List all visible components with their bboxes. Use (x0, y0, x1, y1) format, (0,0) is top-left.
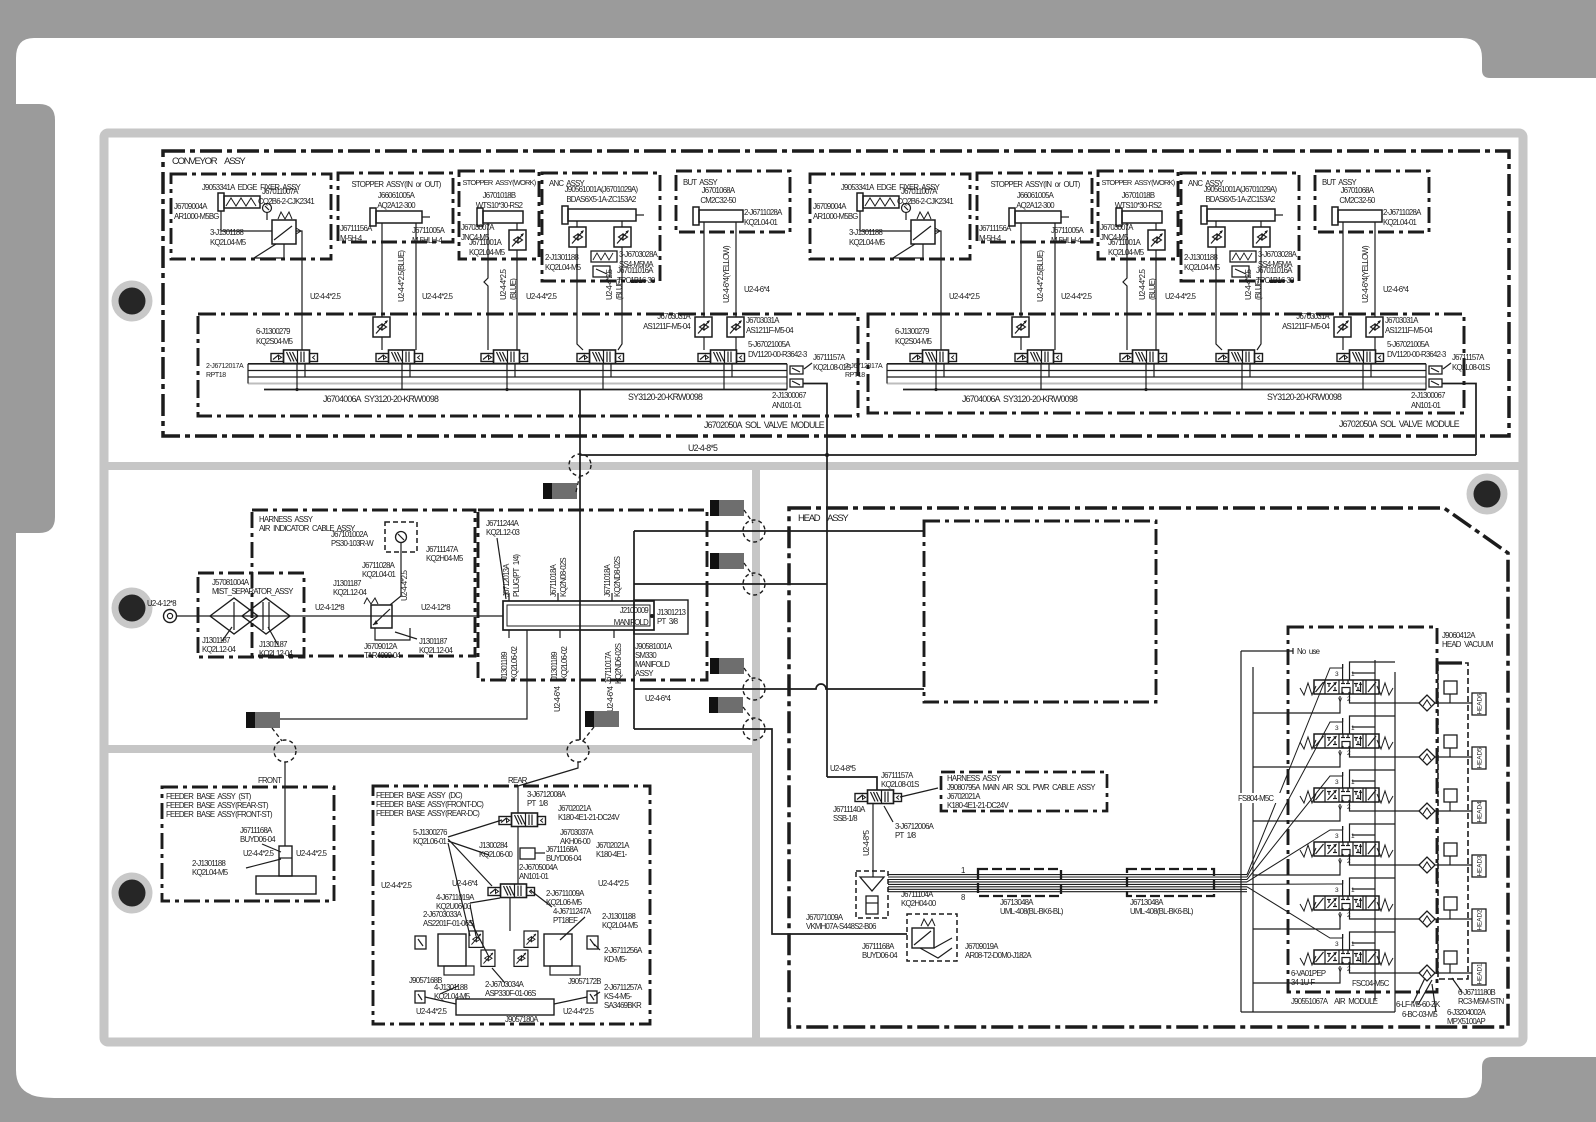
leader (497, 538, 506, 599)
flow control (524, 931, 538, 947)
node circle E (743, 718, 765, 740)
node circle B (743, 520, 765, 542)
connector E (709, 697, 743, 713)
sol valve module box left (198, 314, 858, 416)
svg-text:U2-4-8*5: U2-4-8*5 (862, 829, 871, 856)
gauge box (385, 522, 417, 552)
divider horizontal left (104, 745, 756, 753)
harness assy box (252, 510, 475, 656)
main air valve SSB (855, 790, 902, 804)
leader (222, 627, 232, 641)
node circle A (569, 454, 591, 476)
svg-text:KQ2L12-03: KQ2L12-03 (486, 528, 520, 537)
svg-text:BUYD06-04: BUYD06-04 (240, 835, 276, 844)
svg-text:J1301213: J1301213 (657, 608, 686, 617)
svg-text:AN101-01: AN101-01 (519, 872, 549, 881)
connector B (710, 500, 744, 516)
leaders from 5-J1300276 (448, 820, 502, 837)
svg-text:SM330: SM330 (635, 651, 657, 660)
flow control (469, 931, 483, 947)
node circle C (743, 573, 765, 595)
head valve HEAD1 (1300, 932, 1486, 985)
svg-text:HARNESS ASSY: HARNESS ASSY (259, 515, 314, 524)
svg-text:KQ2N08-02S: KQ2N08-02S (559, 558, 568, 597)
svg-text:PT 1/8: PT 1/8 (895, 831, 916, 840)
connector G (246, 712, 280, 728)
svg-text:J6711017A: J6711017A (604, 650, 613, 684)
trunk wire to head top (634, 530, 924, 532)
svg-text:KQ2ND6-02S: KQ2ND6-02S (614, 643, 623, 684)
no use wire (1241, 650, 1293, 652)
port stubs (508, 593, 510, 601)
conveyor left half (171, 171, 851, 410)
svg-text:U2-4-6*4: U2-4-6*4 (645, 694, 672, 703)
filter unit box (856, 871, 888, 918)
wire valve2 down (509, 898, 511, 931)
trunk wire vertical (633, 531, 635, 729)
svg-text:FEEDER BASE ASSY(REAR-DC): FEEDER BASE ASSY(REAR-DC) (376, 809, 480, 818)
svg-text:3-J6712006A: 3-J6712006A (895, 822, 935, 831)
svg-text:J90581001A: J90581001A (635, 642, 673, 651)
svg-text:UML-408(BL-BK6-BL): UML-408(BL-BK6-BL) (1000, 907, 1064, 916)
conveyor right half (810, 171, 1490, 410)
svg-text:FEEDER BASE ASSY (ST): FEEDER BASE ASSY (ST) (166, 792, 252, 801)
rear valve 1 (499, 813, 546, 827)
head valve HEAD3 (1300, 824, 1486, 877)
svg-text:PS30-103R-W: PS30-103R-W (331, 539, 374, 548)
svg-text:J1301189: J1301189 (550, 652, 559, 680)
svg-text:BUYD06-04: BUYD06-04 (546, 854, 582, 863)
svg-text:J6702050A SOL VALVE MODULE: J6702050A SOL VALVE MODULE (704, 420, 825, 430)
svg-text:BUYD06-04: BUYD06-04 (862, 951, 898, 960)
svg-text:HEAD4: HEAD4 (1477, 801, 1484, 822)
bottom fitting right (587, 991, 597, 1003)
svg-text:PT 1/8: PT 1/8 (527, 799, 548, 808)
feeder base assy (dc) box (373, 786, 650, 1024)
conveyor assy outer box (163, 151, 1509, 436)
svg-text:VKMH07A-S448S2-B06: VKMH07A-S448S2-B06 (806, 922, 876, 931)
wire from riser to main valve (827, 777, 877, 790)
svg-text:2-J6705004A: 2-J6705004A (519, 863, 559, 872)
svg-text:ASP330F-01-06S: ASP330F-01-06S (485, 989, 536, 998)
svg-text:HEAD VACUUM: HEAD VACUUM (1442, 640, 1493, 649)
svg-text:U2-4-12*8: U2-4-12*8 (147, 599, 176, 608)
wires to bottom bar (425, 997, 456, 1004)
svg-text:J9060412A: J9060412A (1442, 631, 1476, 640)
svg-text:J6703037A: J6703037A (560, 828, 594, 837)
svg-text:SSB-1/8: SSB-1/8 (833, 814, 857, 823)
head valve HEAD5 (1300, 716, 1486, 769)
feeder st valve (279, 846, 292, 876)
svg-text:J1301187: J1301187 (333, 579, 361, 588)
feeder st base (256, 876, 316, 894)
trunk wire to filter (634, 729, 907, 934)
leaders (594, 944, 600, 950)
svg-text:J6711168A: J6711168A (546, 845, 579, 854)
head valve HEAD2 (1300, 878, 1486, 931)
valve return wraps (1253, 673, 1375, 983)
svg-text:U2-4-4*2.5: U2-4-4*2.5 (416, 1007, 448, 1016)
svg-text:J6702050A SOL VALVE MODULE: J6702050A SOL VALVE MODULE (1339, 419, 1460, 429)
svg-text:KQ2L04-M5: KQ2L04-M5 (602, 921, 639, 930)
svg-text:FRONT: FRONT (258, 776, 282, 785)
fitting AKH06 (520, 848, 535, 859)
svg-text:4-J6711247A: 4-J6711247A (553, 907, 592, 916)
mist separator assy box (198, 573, 304, 657)
svg-text:34-1U-F: 34-1U-F (1291, 978, 1315, 987)
svg-text:J6711018A: J6711018A (549, 563, 558, 597)
svg-text:J6702021A: J6702021A (947, 792, 981, 801)
svg-text:KQ2L12-04: KQ2L12-04 (333, 588, 368, 597)
svg-text:MPX5100AP: MPX5100AP (1447, 1017, 1485, 1026)
wire riser right module (1442, 384, 1476, 456)
regulator box (907, 914, 957, 961)
leader lines (1413, 978, 1425, 1003)
svg-text:J6713048A: J6713048A (1130, 898, 1164, 907)
svg-text:U2-4-8*5: U2-4-8*5 (830, 764, 857, 773)
svg-text:KQ2L12-04: KQ2L12-04 (419, 646, 454, 655)
connector A (543, 483, 577, 499)
trunk wire to head low with hop (634, 684, 924, 689)
head valve HEAD4 (1300, 770, 1486, 823)
svg-text:5-J1300276: 5-J1300276 (413, 828, 447, 837)
svg-text:HEAD1: HEAD1 (1477, 963, 1484, 984)
svg-text:KQ2L06-00: KQ2L06-00 (479, 850, 514, 859)
head inner box (924, 521, 1156, 702)
svg-text:U2-4-8*5: U2-4-8*5 (688, 443, 718, 453)
leader (246, 859, 281, 868)
svg-text:PT18EF: PT18EF (553, 916, 578, 925)
valve bank frame (1240, 651, 1242, 1012)
svg-text:J6711157A: J6711157A (881, 771, 914, 780)
svg-text:J57081004A: J57081004A (212, 578, 250, 587)
svg-text:KQ2L04-01: KQ2L04-01 (362, 570, 396, 579)
svg-text:2-J6703034A: 2-J6703034A (485, 980, 525, 989)
connector D (710, 658, 744, 674)
svg-text:J1301187: J1301187 (202, 636, 230, 645)
svg-text:U2-4-4*2.5: U2-4-4*2.5 (243, 849, 275, 858)
svg-text:2-J6711256A: 2-J6711256A (604, 946, 643, 955)
svg-text:KD-M5-: KD-M5- (604, 955, 628, 964)
gauge stem wire (390, 542, 401, 605)
svg-text:6-J3204002A: 6-J3204002A (1447, 1008, 1487, 1017)
svg-text:KQ2L06-02: KQ2L06-02 (510, 646, 519, 680)
regulator TAR4000 (371, 605, 392, 628)
svg-text:ASSY: ASSY (635, 669, 654, 678)
connector C (710, 553, 744, 569)
side fitting left (415, 936, 426, 949)
svg-text:HEAD5: HEAD5 (1477, 747, 1484, 768)
wire to rear feeder (518, 762, 578, 813)
wire riser left module (803, 384, 827, 778)
svg-text:U2-4-4*2.5: U2-4-4*2.5 (296, 849, 328, 858)
svg-text:J1301187: J1301187 (259, 640, 287, 649)
svg-text:2-J1301188: 2-J1301188 (192, 859, 226, 868)
svg-text:J6713048A: J6713048A (1000, 898, 1034, 907)
node circle G (274, 740, 296, 762)
sol valve module box right (868, 314, 1464, 413)
svg-text:FEEDER BASE ASSY(FRONT-ST): FEEDER BASE ASSY(FRONT-ST) (166, 810, 273, 819)
svg-text:KQ2L06-01: KQ2L06-01 (413, 837, 447, 846)
svg-text:K180-4E1-21-DC24V: K180-4E1-21-DC24V (947, 801, 1009, 810)
svg-text:J6711168A: J6711168A (862, 942, 895, 951)
svg-text:U2-4-6*4: U2-4-6*4 (452, 879, 479, 888)
svg-text:J9057180A: J9057180A (505, 1015, 539, 1024)
svg-text:3-J6712008A: 3-J6712008A (527, 790, 567, 799)
svg-text:KQ2L12-04: KQ2L12-04 (202, 645, 237, 654)
svg-text:KQ2L04-M5: KQ2L04-M5 (192, 868, 229, 877)
wire to front feeder (284, 762, 286, 846)
right motor block (544, 934, 572, 966)
svg-text:UML-408(BL-BK6-BL): UML-408(BL-BK6-BL) (1130, 907, 1194, 916)
svg-text:2-J6703033A: 2-J6703033A (423, 910, 463, 919)
svg-text:MANIFOLD: MANIFOLD (614, 618, 649, 627)
svg-text:CONVEYOR ASSY: CONVEYOR ASSY (172, 156, 246, 167)
air inlet port (164, 610, 177, 623)
head valve HEAD6 (1300, 662, 1486, 715)
svg-text:J9057172B: J9057172B (568, 977, 601, 986)
tube sheath box 2 (1127, 869, 1214, 896)
svg-text:HEAD2: HEAD2 (1477, 909, 1484, 930)
filter 1 (210, 598, 258, 634)
svg-text:J9080795A MAIN AIR SOL PWR CAB: J9080795A MAIN AIR SOL PWR CABLE ASSY (947, 783, 1096, 792)
svg-text:MANIFOLD: MANIFOLD (635, 660, 670, 669)
bullet 3 (112, 873, 153, 914)
manifold block J2100009 (503, 601, 654, 630)
svg-text:KS-4-M5-: KS-4-M5- (604, 992, 633, 1001)
tube bundle 8 lines (888, 875, 1247, 892)
head valves (1300, 662, 1486, 985)
svg-text:J6711168A: J6711168A (240, 826, 273, 835)
svg-text:U2-4-12*8: U2-4-12*8 (315, 603, 344, 612)
svg-text:KQ2H04-00: KQ2H04-00 (901, 899, 937, 908)
filter 2 (242, 598, 290, 634)
port box PT 3/8 (634, 600, 688, 634)
svg-text:FS804-M5C: FS804-M5C (1238, 794, 1274, 803)
svg-text:J6702021A: J6702021A (558, 804, 592, 813)
svg-text:6-VA01PEP: 6-VA01PEP (1291, 969, 1326, 978)
svg-text:U2-4-6*4: U2-4-6*4 (606, 685, 615, 712)
svg-text:TAR4000-04: TAR4000-04 (364, 651, 402, 660)
svg-text:FSC04-M5C: FSC04-M5C (1352, 979, 1390, 988)
drain (375, 628, 410, 640)
bottom bar (456, 999, 554, 1015)
node circle D (743, 678, 765, 700)
svg-text:2-J1301188: 2-J1301188 (602, 912, 636, 921)
divider vertical (752, 462, 760, 1042)
left gray tab (0, 104, 55, 533)
svg-text:U2-4-6*4: U2-4-6*4 (553, 685, 562, 712)
svg-text:HEAD3: HEAD3 (1477, 855, 1484, 876)
svg-text:J6702021A: J6702021A (596, 841, 630, 850)
svg-text:2-J6711257A: 2-J6711257A (604, 983, 643, 992)
svg-text:U2-4-4*2.5: U2-4-4*2.5 (400, 569, 409, 601)
wire air supply U2-4-8*5 (579, 390, 581, 741)
svg-text:KQ2H04-M5: KQ2H04-M5 (426, 554, 464, 563)
divider horizontal top (104, 462, 1523, 470)
svg-text:RC3-M5M-STN: RC3-M5M-STN (1458, 997, 1504, 1006)
svg-text:KQ2L08-01S: KQ2L08-01S (881, 780, 919, 789)
bullet 1 (112, 281, 153, 322)
svg-text:No use: No use (1297, 647, 1320, 656)
svg-text:1: 1 (961, 866, 965, 875)
left motor block (438, 934, 466, 966)
tube sheath box 1 (978, 869, 1061, 896)
manifold assy box (478, 510, 707, 680)
feeder base assy (st) box (162, 787, 334, 901)
bullet 4 (1467, 474, 1508, 515)
svg-text:J6709019A: J6709019A (965, 942, 999, 951)
fan lines (1247, 668, 1343, 938)
junction dot (825, 453, 829, 457)
head assy outer box (789, 508, 1508, 1027)
svg-text:J1300284: J1300284 (479, 841, 509, 850)
harness assy box (941, 772, 1107, 811)
svg-text:J6712013A: J6712013A (502, 563, 511, 597)
svg-text:HEAD ASSY: HEAD ASSY (798, 513, 849, 524)
svg-text:J1301189: J1301189 (500, 652, 509, 680)
svg-text:6-J6711180B: 6-J6711180B (1458, 988, 1496, 997)
svg-text:J6711018A: J6711018A (603, 563, 612, 597)
svg-text:FEEDER BASE ASSY(FRONT-DC): FEEDER BASE ASSY(FRONT-DC) (376, 800, 484, 809)
svg-text:J6711147A: J6711147A (426, 545, 459, 554)
svg-text:J6709012A: J6709012A (364, 642, 398, 651)
gauge (396, 532, 407, 543)
svg-text:J90551067A AIR MODULE: J90551067A AIR MODULE (1291, 997, 1378, 1006)
svg-text:KQ2L06-02: KQ2L06-02 (560, 646, 569, 680)
svg-text:J6711140A: J6711140A (833, 805, 866, 814)
svg-text:HEAD6: HEAD6 (1477, 693, 1484, 714)
svg-text:U2-4-4*2.5: U2-4-4*2.5 (381, 881, 413, 890)
svg-text:K180-4E1-: K180-4E1- (596, 850, 628, 859)
svg-text:U2-4-4*2.5: U2-4-4*2.5 (563, 1007, 595, 1016)
svg-text:J1301187: J1301187 (419, 637, 447, 646)
svg-text:FEEDER BASE ASSY(REAR-ST): FEEDER BASE ASSY(REAR-ST) (166, 801, 269, 810)
svg-text:4-J1301188: 4-J1301188 (434, 983, 468, 992)
svg-text:K180-4E1-21-DC24V: K180-4E1-21-DC24V (558, 813, 620, 822)
svg-text:U2-4-4*2.5: U2-4-4*2.5 (598, 879, 630, 888)
leaders (470, 898, 500, 903)
svg-text:6-BC-03-M5: 6-BC-03-M5 (1402, 1010, 1438, 1019)
trunk wire to head mid (634, 583, 827, 585)
svg-text:AR08-T2-D0M0-J182A: AR08-T2-D0M0-J182A (965, 951, 1032, 960)
flow control (481, 950, 495, 966)
svg-text:FEEDER BASE ASSY (DC): FEEDER BASE ASSY (DC) (376, 791, 463, 800)
head vacuum box (1438, 663, 1468, 979)
content frame (104, 133, 1523, 1042)
svg-text:J67071009A: J67071009A (806, 913, 844, 922)
svg-text:J6711244A: J6711244A (486, 519, 520, 528)
svg-text:2-J6711009A: 2-J6711009A (546, 889, 585, 898)
svg-text:SA3469BKR: SA3469BKR (604, 1001, 642, 1010)
bottom fitting left (415, 991, 425, 1003)
svg-text:8: 8 (961, 893, 965, 902)
svg-text:PLUG(PT 1/4): PLUG(PT 1/4) (512, 554, 521, 597)
wire valve to filter (872, 804, 874, 877)
wire valve1 to valve2 (517, 827, 519, 884)
manifold to feeder front wire (278, 630, 527, 719)
connector F (585, 711, 619, 727)
svg-text:4-J6711019A: 4-J6711019A (436, 893, 475, 902)
svg-text:J67101002A: J67101002A (331, 530, 369, 539)
side fitting right (587, 936, 598, 949)
svg-text:KQ2L06-M5: KQ2L06-M5 (546, 898, 583, 907)
rear valve 2 (488, 884, 535, 898)
air module box (1288, 627, 1437, 992)
node circle F (567, 740, 589, 762)
svg-text:HARNESS ASSY: HARNESS ASSY (947, 774, 1002, 783)
main air wire (177, 615, 503, 617)
svg-text:J6711028A: J6711028A (362, 561, 396, 570)
svg-text:PT 3/8: PT 3/8 (657, 617, 678, 626)
svg-text:AS2201F-01-06S: AS2201F-01-06S (423, 919, 473, 928)
bullet 2 (112, 588, 153, 629)
svg-text:U2-4-12*8: U2-4-12*8 (421, 603, 450, 612)
flow control (514, 950, 528, 966)
svg-text:KQ2ND8-02S: KQ2ND8-02S (613, 556, 622, 597)
